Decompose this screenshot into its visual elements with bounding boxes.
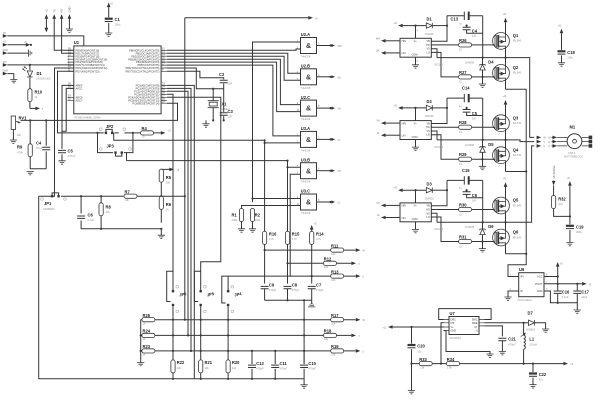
svg-text:IRL540: IRL540 bbox=[513, 121, 522, 125]
svg-text:470pF: 470pF bbox=[269, 288, 277, 292]
capacitor C21 bbox=[498, 337, 516, 355]
svg-text:R32: R32 bbox=[558, 196, 566, 201]
svg-text:470pF: 470pF bbox=[280, 367, 288, 371]
svg-text:CN4.1: CN4.1 bbox=[568, 151, 576, 155]
wire PB2 to U2B in2 bbox=[167, 56, 301, 80]
resistor R7 bbox=[124, 189, 185, 202]
resistor R34 bbox=[432, 357, 563, 370]
connector +D arrow bbox=[567, 177, 572, 217]
capacitor C8 bbox=[284, 282, 300, 300]
svg-text:C9: C9 bbox=[269, 282, 275, 287]
wire U7 GND pin bbox=[444, 331, 491, 354]
svg-text:Q1: Q1 bbox=[513, 33, 519, 38]
svg-text:74HC08: 74HC08 bbox=[301, 117, 311, 121]
motor connector arrows left bbox=[537, 136, 547, 149]
wire Q4 source join bbox=[506, 171, 527, 173]
svg-text:0.1uF: 0.1uF bbox=[88, 218, 95, 222]
wire JP1 left down bbox=[39, 196, 150, 379]
svg-text:D5: D5 bbox=[488, 142, 494, 147]
svg-text:1uF: 1uF bbox=[472, 34, 477, 38]
svg-text:PB7(TOSC2/XTAL2/PCINT7): PB7(TOSC2/XTAL2/PCINT7) bbox=[126, 69, 160, 73]
svg-text:R23: R23 bbox=[143, 344, 151, 349]
U1 pin labels bbox=[76, 48, 160, 105]
jumper JP1 bbox=[39, 192, 67, 211]
wire R4 node bbox=[127, 133, 135, 153]
svg-text:22P: 22P bbox=[228, 82, 233, 86]
wire phase V to motor bbox=[506, 140, 535, 142]
svg-text:IS: IS bbox=[589, 283, 592, 286]
svg-text:R26: R26 bbox=[459, 38, 467, 43]
wire PC0 to bottom bus bbox=[167, 85, 195, 378]
wire U6 VIOUT bbox=[544, 283, 582, 285]
svg-text:WH: WH bbox=[376, 37, 380, 40]
svg-text:MC34063: MC34063 bbox=[450, 336, 462, 340]
svg-text:U: U bbox=[363, 276, 365, 279]
svg-text:IRL540: IRL540 bbox=[513, 71, 522, 75]
svg-text:ATMEGA48/88_32PIN: ATMEGA48/88_32PIN bbox=[75, 116, 101, 120]
connector +5 arrow output bbox=[563, 362, 568, 366]
wire PB4 to U2C in2 bbox=[167, 62, 301, 112]
svg-text:IRL540: IRL540 bbox=[513, 235, 522, 239]
capacitor C11 bbox=[271, 351, 287, 379]
svg-text:C1: C1 bbox=[115, 17, 121, 22]
resistor R21 bbox=[199, 360, 213, 379]
wire PC1 to R23 line bbox=[167, 88, 191, 351]
svg-text:22pF: 22pF bbox=[581, 295, 587, 299]
capacitor C5 bbox=[58, 88, 76, 164]
svg-text:R22: R22 bbox=[177, 360, 185, 365]
resistor R33 bbox=[410, 357, 432, 370]
connector +5 mate arrow bbox=[24, 41, 32, 47]
ground rotated bbox=[7, 50, 31, 57]
resistor R9 bbox=[17, 119, 34, 175]
svg-text:PD7(AIN1/PCINT23): PD7(AIN1/PCINT23) bbox=[76, 69, 100, 73]
svg-text:D1: D1 bbox=[37, 71, 43, 76]
svg-text:Q4: Q4 bbox=[513, 147, 519, 152]
wire R19 line bbox=[155, 350, 356, 352]
resistor R2 bbox=[249, 209, 261, 233]
svg-text:R11: R11 bbox=[331, 243, 339, 248]
wire U7 IPK to R33/R34 bbox=[441, 323, 444, 364]
svg-text:IRL540: IRL540 bbox=[513, 153, 522, 157]
AND gate U2.C bbox=[297, 95, 341, 121]
wire low-side bus bbox=[506, 89, 527, 276]
capacitor C4 bbox=[30, 119, 50, 168]
svg-text:74HC08: 74HC08 bbox=[301, 180, 311, 184]
svg-text:AB SENSE: AB SENSE bbox=[552, 165, 556, 179]
svg-text:C20: C20 bbox=[417, 344, 425, 349]
wire U7 DRC-SWC loop bbox=[439, 309, 491, 320]
diode D7 bbox=[485, 310, 550, 332]
wire to ground bbox=[7, 74, 13, 80]
svg-text:PC: PC bbox=[3, 32, 7, 35]
svg-text:+D: +D bbox=[394, 22, 397, 25]
svg-text:R29: R29 bbox=[459, 152, 467, 157]
svg-text:+D: +D bbox=[567, 177, 570, 180]
svg-text:C14: C14 bbox=[462, 86, 470, 91]
svg-text:RC: RC bbox=[3, 61, 7, 64]
svg-text:UH: UH bbox=[376, 202, 380, 205]
svg-text:R15: R15 bbox=[292, 231, 300, 236]
resistor R32 bbox=[552, 186, 570, 217]
resistor R19 bbox=[331, 344, 365, 356]
svg-text:C10: C10 bbox=[308, 361, 316, 366]
resistor R4 bbox=[135, 126, 172, 139]
svg-text:10k: 10k bbox=[324, 337, 329, 341]
U1 pin stubs right bbox=[161, 50, 167, 103]
svg-text:C4: C4 bbox=[472, 29, 478, 34]
svg-text:0.1uF: 0.1uF bbox=[562, 295, 569, 299]
svg-text:RX: RX bbox=[60, 9, 64, 13]
wire PC4 to JP5 bbox=[167, 97, 221, 291]
svg-text:74HC08: 74HC08 bbox=[301, 211, 311, 215]
svg-text:C17: C17 bbox=[581, 289, 589, 294]
svg-text:U1: U1 bbox=[74, 40, 80, 45]
svg-text:AVCC: AVCC bbox=[76, 87, 83, 91]
connector P1 bidirectional arrow bbox=[45, 9, 49, 32]
potentiometer RV1 bbox=[10, 116, 27, 144]
svg-text:R14: R14 bbox=[316, 231, 324, 236]
wire cap to 300 line col bbox=[303, 300, 305, 364]
svg-text:U: U bbox=[363, 350, 365, 353]
svg-text:22P: 22P bbox=[228, 115, 233, 119]
wire R25 chain ground bbox=[140, 320, 142, 363]
svg-text:+12: +12 bbox=[382, 327, 387, 330]
wire top net bbox=[185, 18, 308, 320]
svg-text:R25: R25 bbox=[143, 313, 151, 318]
AND gate U2.B bbox=[297, 64, 342, 90]
svg-text:C18: C18 bbox=[567, 50, 575, 55]
svg-text:C6: C6 bbox=[88, 213, 94, 218]
svg-text:GND: GND bbox=[68, 6, 72, 12]
svg-text:M1: M1 bbox=[570, 125, 576, 130]
wire PC2 to R24 line bbox=[167, 91, 188, 335]
svg-text:+5: +5 bbox=[45, 9, 49, 13]
connector +5 arrow U6 bbox=[556, 262, 563, 277]
svg-text:470pF: 470pF bbox=[316, 288, 324, 292]
svg-text:47u: 47u bbox=[539, 378, 544, 382]
svg-text:R8: R8 bbox=[106, 205, 112, 210]
svg-text:D2: D2 bbox=[427, 99, 433, 104]
svg-text:470pF: 470pF bbox=[508, 342, 516, 346]
resistor R17 bbox=[331, 313, 366, 325]
svg-text:JP1: JP1 bbox=[44, 201, 52, 206]
resistor R6 bbox=[159, 196, 172, 211]
capacitor C17 bbox=[573, 284, 589, 310]
svg-text:+D: +D bbox=[394, 187, 397, 190]
svg-text:ACS712ELC: ACS712ELC bbox=[518, 298, 533, 302]
svg-text:C12: C12 bbox=[256, 361, 264, 366]
svg-text:MOTOR/BLOCK: MOTOR/BLOCK bbox=[564, 155, 583, 159]
svg-text:U2.C: U2.C bbox=[301, 95, 310, 100]
microcontroller U1 bbox=[74, 40, 161, 120]
svg-text:1uF: 1uF bbox=[472, 116, 477, 120]
svg-text:R34: R34 bbox=[447, 357, 455, 362]
wire JP1 right to R7 bbox=[65, 195, 124, 197]
AND gate U3.A bbox=[297, 126, 341, 152]
ground crystal bbox=[212, 119, 214, 121]
svg-text:4.7k: 4.7k bbox=[316, 237, 322, 241]
svg-text:R19: R19 bbox=[331, 344, 339, 349]
regulator U7 bbox=[444, 311, 485, 340]
AND gate U2.A bbox=[297, 32, 342, 58]
ground inverted caps bbox=[311, 300, 313, 303]
svg-text:R27: R27 bbox=[459, 70, 467, 75]
connector GND arrow bbox=[66, 6, 73, 32]
svg-text:R9: R9 bbox=[17, 145, 23, 150]
svg-text:VIOUT: VIOUT bbox=[535, 283, 543, 286]
svg-text:U2.B: U2.B bbox=[301, 64, 310, 69]
svg-text:10k: 10k bbox=[106, 210, 111, 214]
svg-text:+D: +D bbox=[503, 13, 506, 16]
driver row 1 (IC U4, D1, C13, C4, R26, R27, D4, Q1, Q2) bbox=[381, 12, 509, 90]
svg-text:R18: R18 bbox=[324, 329, 332, 334]
svg-text:10k: 10k bbox=[166, 180, 171, 184]
svg-text:PC6(RESET/PCINT14): PC6(RESET/PCINT14) bbox=[132, 101, 159, 105]
wire PD7 down to R7 line bbox=[58, 71, 98, 133]
wire U6 VCC bbox=[544, 276, 558, 278]
svg-text:1N5819: 1N5819 bbox=[526, 328, 536, 332]
svg-text:JP3: JP3 bbox=[107, 144, 115, 149]
wire U6 GND bbox=[544, 291, 577, 303]
svg-text:1N4005: 1N4005 bbox=[425, 32, 435, 36]
svg-text:C4: C4 bbox=[36, 141, 42, 146]
svg-text:100: 100 bbox=[331, 252, 336, 256]
wire phase W to motor bbox=[506, 58, 535, 138]
svg-text:100u: 100u bbox=[115, 23, 121, 27]
svg-text:1N4005: 1N4005 bbox=[425, 114, 435, 118]
svg-text:TX: TX bbox=[52, 9, 56, 13]
svg-text:JUMPER2: JUMPER2 bbox=[43, 207, 56, 211]
svg-text:DIODE-LED: DIODE-LED bbox=[37, 76, 51, 80]
svg-text:D3: D3 bbox=[427, 181, 433, 186]
svg-text:Q2: Q2 bbox=[513, 65, 519, 70]
connector +5 arrow left bbox=[3, 41, 8, 47]
connector +12 arrow U7 bbox=[382, 325, 392, 329]
capacitor C20 bbox=[408, 327, 426, 394]
svg-text:IR2101: IR2101 bbox=[435, 227, 444, 231]
resistor R13 bbox=[290, 269, 364, 282]
svg-text:U: U bbox=[544, 145, 546, 148]
svg-text:10k: 10k bbox=[17, 133, 22, 137]
svg-text:U2.A: U2.A bbox=[301, 32, 310, 37]
svg-text:U3.A: U3.A bbox=[301, 126, 310, 131]
svg-text:D7: D7 bbox=[528, 310, 534, 315]
wire PB5 to U3A in1 bbox=[167, 65, 301, 136]
capacitor C12 bbox=[248, 351, 265, 379]
svg-text:10k: 10k bbox=[331, 353, 336, 357]
wire RV1 wiper to PC6 bbox=[21, 103, 178, 120]
resistor R20 bbox=[226, 360, 240, 379]
connector arrow GND2 left bbox=[3, 70, 9, 76]
svg-text:R2: R2 bbox=[255, 213, 261, 218]
svg-text:10k: 10k bbox=[177, 366, 182, 370]
wire U6 IP- to ground bbox=[508, 291, 519, 297]
svg-text:R28: R28 bbox=[459, 120, 467, 125]
svg-text:+D: +D bbox=[558, 25, 561, 28]
connector TX arrow bbox=[52, 9, 74, 50]
svg-text:IR2101: IR2101 bbox=[435, 145, 444, 149]
resistor R15 bbox=[285, 231, 300, 283]
ground bottom bus bbox=[303, 379, 305, 385]
junction dots sense lines bbox=[172, 319, 305, 352]
svg-text:GND: GND bbox=[537, 290, 543, 293]
resistor R16 bbox=[263, 231, 278, 283]
capacitor C19 bbox=[566, 215, 584, 246]
svg-text:1N4005: 1N4005 bbox=[465, 225, 475, 229]
jumper JP5 bbox=[194, 271, 215, 360]
svg-text:R30: R30 bbox=[459, 203, 467, 208]
wire U3B in1 from JP3 net bbox=[288, 161, 301, 232]
svg-text:R16: R16 bbox=[269, 231, 277, 236]
svg-text:R17: R17 bbox=[331, 313, 339, 318]
ground below R6 bbox=[160, 228, 162, 230]
capacitor C1 bbox=[105, 3, 121, 37]
wire U2A in1 net bbox=[253, 42, 301, 202]
svg-text:+D: +D bbox=[503, 95, 506, 98]
svg-text:470pF: 470pF bbox=[292, 288, 300, 292]
svg-text:C15: C15 bbox=[462, 168, 470, 173]
svg-text:0.1uF: 0.1uF bbox=[36, 146, 43, 150]
svg-text:1.3k: 1.3k bbox=[419, 366, 425, 370]
wire caps common bbox=[265, 299, 312, 301]
capacitor C3 bbox=[213, 89, 233, 121]
svg-text:+D: +D bbox=[394, 104, 397, 107]
svg-text:R21: R21 bbox=[205, 360, 213, 365]
svg-text:R13: R13 bbox=[331, 269, 339, 274]
connector arrow top net bbox=[308, 16, 313, 20]
svg-text:C2: C2 bbox=[219, 72, 225, 77]
wire +5 stub bbox=[7, 44, 26, 46]
svg-text:10k: 10k bbox=[205, 366, 210, 370]
driver row 1 labels bbox=[376, 13, 522, 84]
svg-text:470k: 470k bbox=[17, 151, 23, 155]
svg-text:100k: 100k bbox=[232, 218, 238, 222]
wire R18 line bbox=[155, 334, 352, 336]
svg-text:10u: 10u bbox=[417, 349, 422, 353]
wire PB1 to U2B in1 bbox=[167, 53, 301, 73]
svg-text:R5: R5 bbox=[166, 175, 172, 180]
svg-text:X1: X1 bbox=[222, 101, 228, 106]
svg-text:C13: C13 bbox=[451, 17, 459, 22]
svg-text:74HC08: 74HC08 bbox=[301, 55, 311, 59]
resistor R24 bbox=[141, 329, 155, 341]
resistor R11 bbox=[264, 243, 366, 256]
svg-text:D4: D4 bbox=[488, 60, 494, 65]
svg-text:Q5: Q5 bbox=[513, 198, 519, 203]
svg-text:100u: 100u bbox=[567, 56, 573, 60]
svg-text:R4: R4 bbox=[142, 126, 148, 131]
jumper JP2 bbox=[96, 124, 125, 153]
capacitor C9 bbox=[261, 282, 277, 300]
svg-text:R10: R10 bbox=[35, 90, 43, 95]
svg-text:IPK: IPK bbox=[451, 322, 455, 325]
svg-text:10k: 10k bbox=[232, 366, 237, 370]
U1 pin stubs left bbox=[68, 50, 74, 100]
svg-text:CT: CT bbox=[474, 326, 478, 329]
svg-text:+D: +D bbox=[503, 177, 506, 180]
svg-text:100: 100 bbox=[324, 265, 329, 269]
svg-text:UH: UH bbox=[338, 170, 342, 173]
svg-text:VCC: VCC bbox=[537, 276, 542, 279]
svg-text:GND: GND bbox=[451, 330, 457, 333]
svg-text:IP+: IP+ bbox=[520, 276, 524, 279]
svg-text:U6: U6 bbox=[519, 267, 525, 272]
capacitor C2 bbox=[167, 71, 233, 88]
svg-text:C3: C3 bbox=[228, 109, 234, 114]
resistor R8 bbox=[99, 196, 111, 229]
svg-text:R33: R33 bbox=[419, 357, 427, 362]
wire PB3 to U2C in1 bbox=[167, 59, 301, 104]
wire PD5 bbox=[7, 64, 73, 66]
wire U3C in2 from R1 bbox=[242, 206, 301, 209]
svg-text:400u: 400u bbox=[576, 230, 582, 234]
svg-text:IR2101: IR2101 bbox=[435, 63, 444, 67]
wire PB0 to U2A in2 bbox=[167, 49, 301, 50]
svg-text:470pF: 470pF bbox=[256, 367, 264, 371]
svg-text:470pF: 470pF bbox=[308, 367, 316, 371]
U1 pin numbers bbox=[68, 48, 165, 104]
svg-text:WH: WH bbox=[338, 45, 342, 48]
svg-text:4.7k: 4.7k bbox=[269, 237, 275, 241]
svg-text:3.6k: 3.6k bbox=[447, 366, 453, 370]
svg-text:Q6: Q6 bbox=[513, 230, 519, 235]
connector AB SENSE arrow bbox=[552, 165, 556, 185]
wire +12 to V+ bbox=[393, 326, 444, 328]
svg-text:GND: GND bbox=[3, 49, 9, 52]
resistor R22 bbox=[171, 360, 185, 379]
svg-text:C7: C7 bbox=[316, 282, 322, 287]
svg-text:74HC08: 74HC08 bbox=[301, 86, 311, 90]
svg-text:U3.B: U3.B bbox=[301, 157, 310, 162]
driver row 2 labels bbox=[376, 86, 521, 167]
svg-text:ADC7: ADC7 bbox=[76, 98, 84, 102]
svg-text:D6: D6 bbox=[488, 224, 494, 229]
svg-text:U3.C: U3.C bbox=[301, 189, 310, 194]
driver row 3 (IC U8, D3, C15, C6, R30, R31, D6, Q5, Q6) bbox=[381, 176, 509, 254]
svg-text:10k: 10k bbox=[125, 198, 130, 202]
wire C6 R8 bottom bbox=[81, 228, 161, 230]
svg-text:R7: R7 bbox=[125, 189, 131, 194]
ground bbox=[10, 80, 17, 83]
resistor R25 bbox=[141, 313, 155, 325]
svg-text:C22: C22 bbox=[539, 372, 547, 377]
capacitor C6 bbox=[77, 196, 94, 229]
AND gate U3.B bbox=[297, 157, 342, 183]
svg-text:U7: U7 bbox=[450, 311, 456, 316]
connector RX arrow bbox=[60, 9, 74, 54]
svg-text:10k: 10k bbox=[331, 321, 336, 325]
LED D1 bbox=[22, 64, 51, 83]
svg-text:0.01uF: 0.01uF bbox=[68, 154, 76, 158]
wire U7 CT to C21 bbox=[485, 326, 503, 337]
svg-text:V+: V+ bbox=[451, 326, 455, 329]
driver row 3 labels bbox=[376, 168, 521, 249]
resistor R1 bbox=[232, 209, 246, 233]
svg-text:VH: VH bbox=[338, 108, 342, 111]
capacitor C10 bbox=[300, 351, 317, 379]
capacitor C22 bbox=[529, 363, 547, 389]
motor connector arrows right bbox=[548, 136, 557, 149]
svg-text:R6: R6 bbox=[166, 202, 172, 207]
wire U3A in2 from JP2 net bbox=[265, 140, 301, 231]
svg-text:D1: D1 bbox=[427, 17, 433, 22]
wire PD6 down to JP1 bbox=[55, 68, 74, 192]
svg-text:JP2: JP2 bbox=[106, 124, 114, 129]
svg-text:C6: C6 bbox=[472, 193, 478, 198]
jumper JP3 bbox=[99, 144, 131, 157]
connector RC arrow left bbox=[3, 32, 8, 38]
